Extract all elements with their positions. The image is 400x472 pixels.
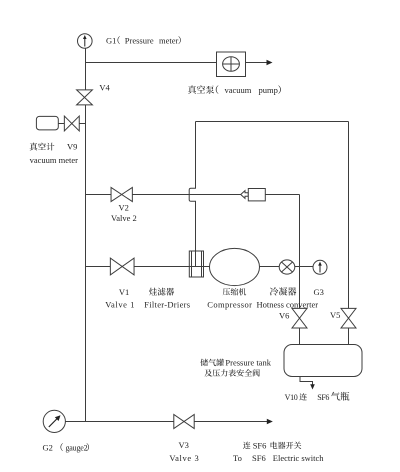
svg-text:vacuum: vacuum	[225, 85, 252, 95]
valve V6	[292, 308, 307, 328]
compressor	[210, 248, 260, 285]
filter-driers	[189, 251, 203, 277]
svg-text:SF6: SF6	[253, 440, 267, 450]
wire main vertical V4-bottom	[85, 105, 87, 422]
valve V1	[110, 258, 134, 275]
wire V9 to main line	[79, 123, 85, 125]
wire to vacuum pump	[86, 62, 217, 64]
wire V1 to compressor	[134, 266, 209, 268]
svg-text:gauge2: gauge2	[66, 443, 88, 452]
svg-text:Compressor: Compressor	[207, 300, 252, 310]
wire converter to G3	[295, 266, 313, 268]
wire V2 to connector	[132, 194, 240, 196]
connector check symbol	[241, 191, 249, 199]
valve V9	[64, 116, 79, 131]
wire G2 to V3	[65, 421, 173, 423]
label converter CN	[270, 287, 296, 295]
svg-text:Electric switch: Electric switch	[273, 453, 324, 463]
svg-text:To: To	[233, 453, 242, 463]
svg-text:V3: V3	[179, 440, 189, 450]
svg-text:V1: V1	[119, 287, 129, 297]
label pressure tank line1	[200, 359, 224, 366]
label filter CN	[149, 288, 174, 296]
gauge G3	[313, 260, 327, 274]
svg-text:G1: G1	[106, 35, 116, 45]
wire tank outlet with arrow	[300, 377, 315, 390]
wire pump outlet with arrow	[246, 60, 273, 66]
svg-text:pump: pump	[259, 85, 278, 95]
svg-text:V4: V4	[99, 83, 110, 93]
svg-text:Pressure: Pressure	[125, 35, 154, 45]
svg-text:SF6: SF6	[317, 393, 329, 402]
connector box	[248, 189, 265, 201]
wire vacuum meter to V9	[58, 123, 64, 125]
svg-text:SF6: SF6	[252, 453, 266, 463]
label compressor CN	[223, 288, 247, 296]
svg-text:Valve 3: Valve 3	[169, 453, 199, 463]
svg-text:Hotness converter: Hotness converter	[257, 300, 319, 310]
valve V2	[111, 187, 132, 201]
wire V5 to tank	[348, 328, 350, 345]
svg-text:V6: V6	[279, 310, 289, 320]
vacuum pump	[217, 52, 246, 77]
svg-text:Filter-Driers: Filter-Driers	[144, 300, 190, 310]
vacuum meter body	[36, 116, 58, 129]
label to SF6 electric switch CN	[243, 442, 251, 449]
svg-text:Valve 1: Valve 1	[105, 300, 135, 310]
gauge G1	[78, 34, 93, 49]
wire down to V6	[299, 195, 301, 309]
label vacuum meter CN	[30, 143, 55, 151]
svg-text:V2: V2	[119, 203, 129, 213]
gauge G2	[43, 410, 65, 432]
pressure tank	[284, 345, 362, 377]
valve V4	[77, 90, 93, 105]
wire connector to right corner	[265, 194, 299, 196]
wire main to V2	[86, 194, 112, 196]
svg-text:V5: V5	[330, 310, 340, 320]
svg-text:V10: V10	[285, 393, 298, 402]
wire loop vertical with hop	[189, 122, 195, 267]
svg-text:Valve 2: Valve 2	[111, 213, 137, 223]
svg-text:Pressure tank: Pressure tank	[225, 358, 271, 368]
svg-text:vacuum meter: vacuum meter	[30, 155, 79, 165]
wire V3 to SF6 switch with arrow	[194, 419, 273, 425]
svg-text:G3: G3	[314, 287, 324, 297]
valve V5	[341, 308, 356, 328]
wire main vertical G1-V4	[85, 48, 87, 90]
label pressure tank line2	[204, 369, 259, 377]
valve V3	[174, 415, 194, 429]
svg-text:V9: V9	[67, 141, 77, 151]
label vacuum pump	[188, 85, 214, 94]
svg-text:G2: G2	[43, 442, 53, 452]
wire right vertical to V5	[348, 122, 350, 309]
wire loop horizontal top	[196, 121, 349, 123]
wire compressor to converter	[260, 266, 280, 268]
wire main to V1	[86, 266, 111, 268]
svg-text:meter: meter	[159, 35, 179, 45]
wire V6 to tank	[299, 328, 301, 345]
hotness converter	[279, 260, 295, 274]
